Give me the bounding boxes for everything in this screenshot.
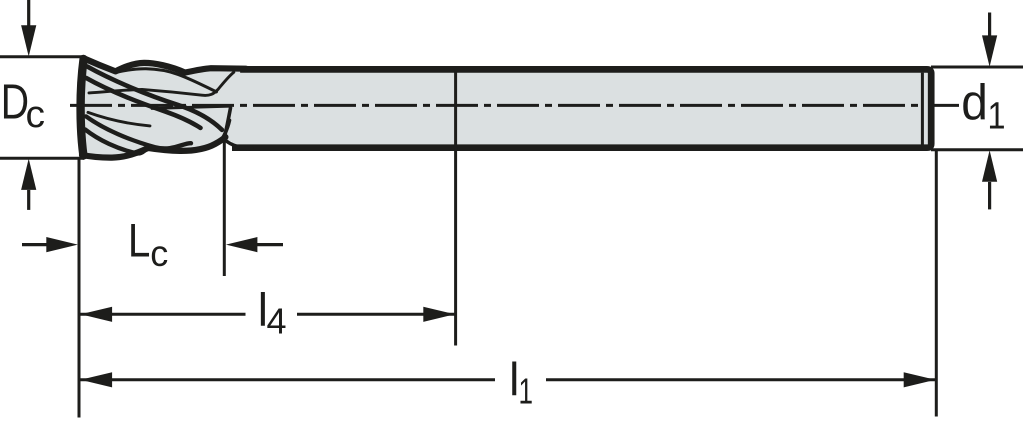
d1 leader line <box>934 104 960 107</box>
flute lower facet top line <box>152 106 230 108</box>
shank end face line <box>921 73 924 145</box>
Lc left-pointing arrow <box>226 237 283 252</box>
ext line top-left <box>0 55 84 58</box>
l4 dimension line <box>81 307 456 322</box>
flute helix curve A4 <box>85 129 147 153</box>
Dc bottom arrow <box>21 159 36 210</box>
ext line bottom-right <box>931 148 1023 151</box>
flute bottom X rise <box>220 120 230 142</box>
ext line top-right <box>931 66 1023 69</box>
vert ext line shank end <box>935 150 938 417</box>
svg-text:d: d <box>961 74 988 130</box>
flute helix curve A3 <box>86 116 191 148</box>
flute lower thin line <box>88 112 150 126</box>
Dc top arrow <box>21 0 36 57</box>
flute section fill <box>82 58 243 157</box>
flute helix curve A1 <box>87 66 222 129</box>
svg-text:1: 1 <box>988 96 1006 138</box>
shank body <box>232 69 931 147</box>
center line <box>70 104 918 107</box>
flute outline: top edge <box>83 58 246 73</box>
flute helix curve A2 <box>86 78 201 128</box>
svg-text:c: c <box>26 94 46 136</box>
flute land line thin <box>89 72 234 95</box>
vert ext line at flute end <box>223 139 226 276</box>
svg-text:L: L <box>128 214 150 267</box>
flute facet right edge <box>224 108 252 149</box>
flute left edge <box>81 59 84 156</box>
Lc right-pointing arrow <box>22 237 78 252</box>
svg-text:4: 4 <box>267 301 287 342</box>
svg-text:c: c <box>150 233 168 274</box>
l1 dimension line <box>81 372 936 387</box>
ext line bottom-left <box>0 157 84 160</box>
vert ext line at mill tip <box>78 158 81 417</box>
flute under-crest thin line <box>117 69 217 92</box>
svg-text:1: 1 <box>519 371 534 412</box>
flute outline: bottom edge <box>82 137 225 158</box>
d1 bottom arrow <box>982 150 997 209</box>
d1 top arrow <box>982 13 997 67</box>
vert ext line l4 <box>454 71 457 346</box>
